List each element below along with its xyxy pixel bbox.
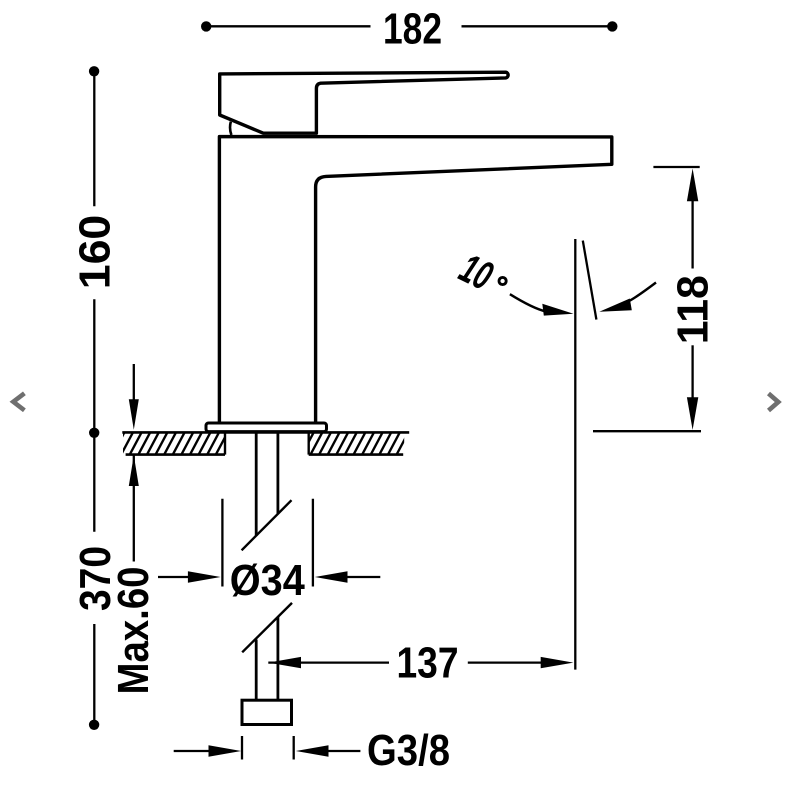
dim 118 line upper + arrow	[691, 196, 693, 269]
dim O34 left arrow	[158, 576, 195, 578]
supply pipe lower left line	[255, 640, 258, 700]
dim dot top	[89, 66, 99, 76]
svg-text:Ø34: Ø34	[230, 557, 305, 605]
dim Max.60 upper arrow	[133, 364, 135, 562]
svg-text:182: 182	[383, 6, 442, 54]
angle arc right with arrow	[628, 283, 657, 302]
dim 118 line lower + arrow	[691, 345, 693, 402]
dim 118 bottom tick	[593, 430, 701, 432]
dim 118 top tick	[653, 166, 699, 168]
faucet body and spout	[219, 137, 611, 422]
countertop hole left edge	[224, 432, 226, 454]
countertop hatch right	[309, 433, 405, 454]
carousel chevron right	[769, 394, 779, 411]
dim Max.60 lower arrow	[129, 455, 139, 486]
svg-text:137: 137	[397, 640, 459, 688]
dim 137 left arrow	[268, 661, 389, 663]
base plate	[206, 423, 327, 432]
dim dot middle	[89, 428, 99, 438]
supply pipe upper left line	[255, 433, 258, 537]
dim 182 left dot	[201, 21, 211, 31]
carousel chevron left	[13, 393, 24, 410]
dim O34 right arrow	[340, 576, 380, 578]
countertop bottom line right	[309, 453, 404, 456]
svg-text:G3/8: G3/8	[367, 727, 450, 775]
dim G3/8 left arrow	[174, 750, 212, 752]
angle tilted line	[583, 241, 597, 320]
svg-text:10: 10	[453, 245, 500, 300]
supply pipe upper right line	[276, 433, 279, 514]
dim O34 left tick	[221, 499, 223, 587]
lever pivot arc	[230, 122, 231, 135]
G3/8 fitting	[242, 700, 292, 724]
countertop hatch left	[123, 433, 225, 454]
svg-text:118: 118	[670, 275, 718, 344]
dim O34 right tick	[312, 499, 314, 587]
dim G3/8 right arrow	[324, 750, 360, 752]
dim G3/8 right tick	[293, 736, 295, 760]
dim G3/8 left tick	[241, 736, 243, 760]
dim 182 line	[207, 25, 613, 27]
countertop top line	[122, 431, 409, 434]
faucet lever handle	[220, 72, 508, 133]
countertop bottom line left	[126, 453, 225, 456]
angle arc left with arrow	[510, 294, 546, 311]
countertop hole right edge	[308, 432, 310, 454]
angle ref vertical stream line	[574, 239, 576, 670]
supply pipe lower right line	[276, 617, 279, 700]
dim 182 right dot	[607, 21, 617, 31]
dim 160-370 vertical line	[93, 71, 95, 725]
dim dot bottom	[89, 720, 99, 730]
svg-text:160: 160	[71, 215, 119, 290]
dim 137 right arrow	[468, 661, 545, 663]
pipe break diagonal upper	[242, 500, 292, 550]
svg-text:Max.60: Max.60	[110, 567, 158, 695]
pipe break diagonal lower	[242, 603, 292, 652]
